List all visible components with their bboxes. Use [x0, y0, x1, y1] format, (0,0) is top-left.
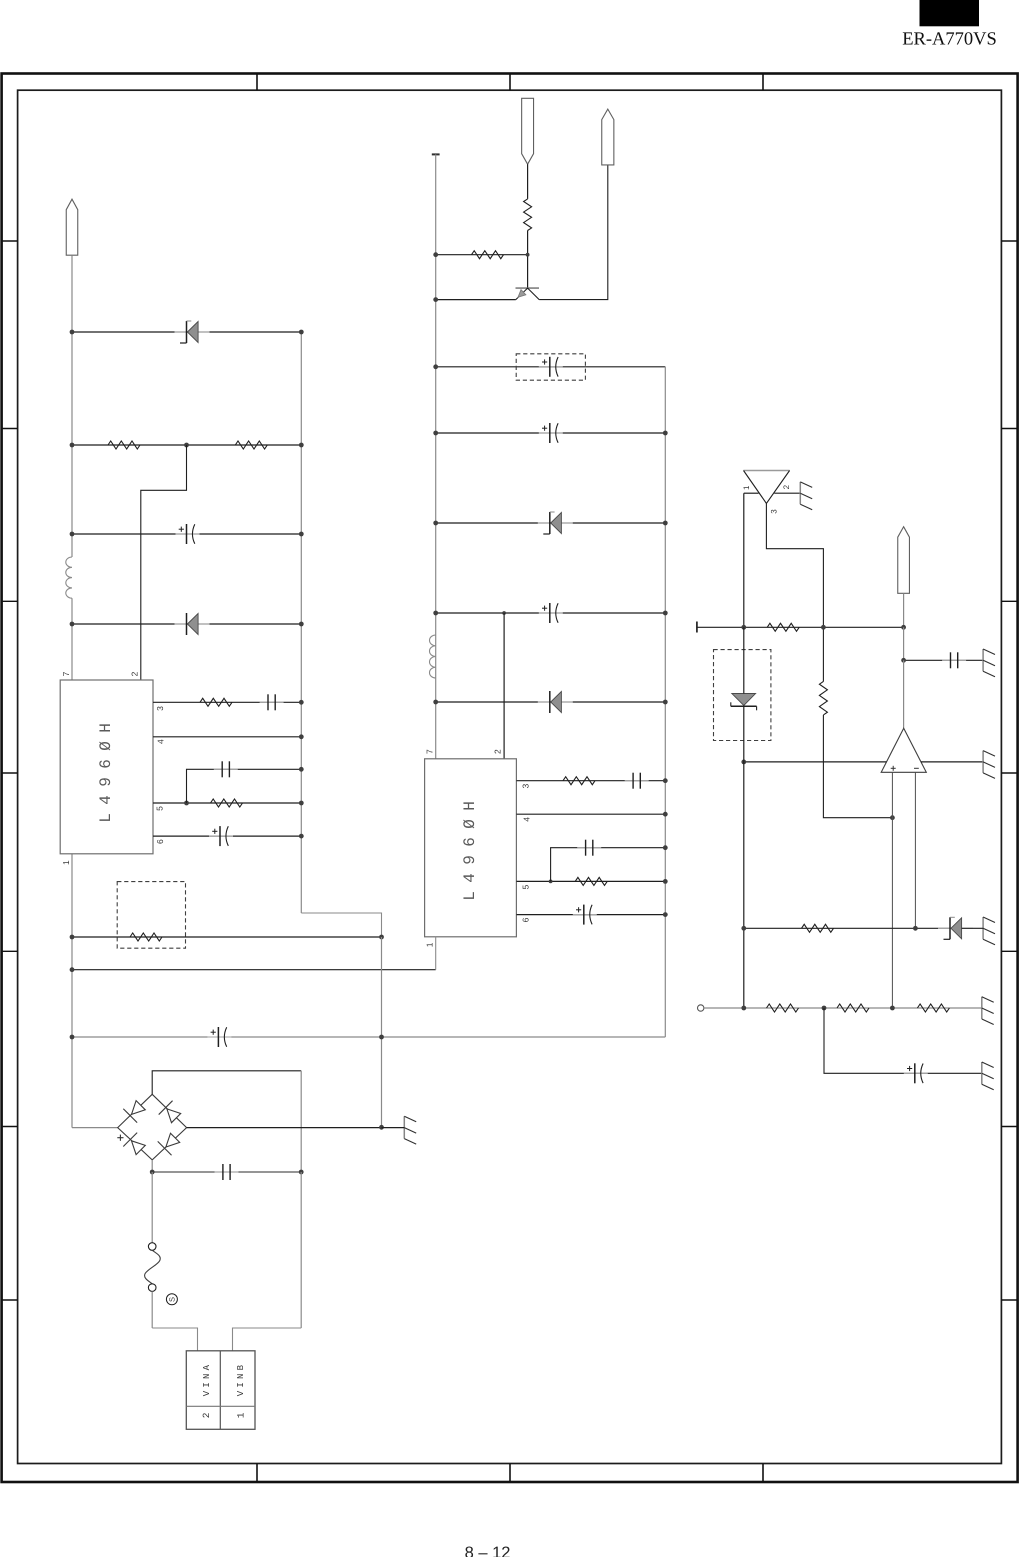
svg-text:VINB: VINB — [236, 1362, 246, 1396]
svg-text:1: 1 — [742, 485, 751, 490]
svg-text:7: 7 — [61, 671, 71, 676]
svg-text:3: 3 — [155, 706, 165, 711]
svg-text:6: 6 — [520, 917, 530, 922]
svg-text:1: 1 — [425, 942, 435, 947]
svg-text:4: 4 — [156, 739, 166, 744]
svg-text:ER-A770VS: ER-A770VS — [902, 30, 997, 50]
svg-text:2: 2 — [782, 484, 791, 489]
svg-text:2: 2 — [493, 749, 503, 754]
svg-text:7: 7 — [425, 749, 435, 754]
svg-text:3: 3 — [769, 509, 778, 514]
svg-text:4: 4 — [521, 817, 531, 822]
svg-text:5: 5 — [154, 806, 164, 811]
svg-text:L496ØH: L496ØH — [461, 793, 479, 901]
svg-text:VINA: VINA — [202, 1362, 212, 1396]
svg-text:S: S — [168, 1297, 177, 1302]
svg-text:5: 5 — [521, 885, 531, 890]
svg-text:2: 2 — [130, 671, 140, 676]
svg-text:L496ØH: L496ØH — [97, 715, 115, 823]
svg-text:8 – 12: 8 – 12 — [465, 1544, 511, 1557]
svg-text:1: 1 — [61, 860, 71, 865]
svg-text:1: 1 — [235, 1412, 246, 1418]
svg-text:6: 6 — [155, 839, 165, 844]
svg-text:3: 3 — [521, 784, 531, 789]
svg-text:2: 2 — [201, 1412, 212, 1418]
